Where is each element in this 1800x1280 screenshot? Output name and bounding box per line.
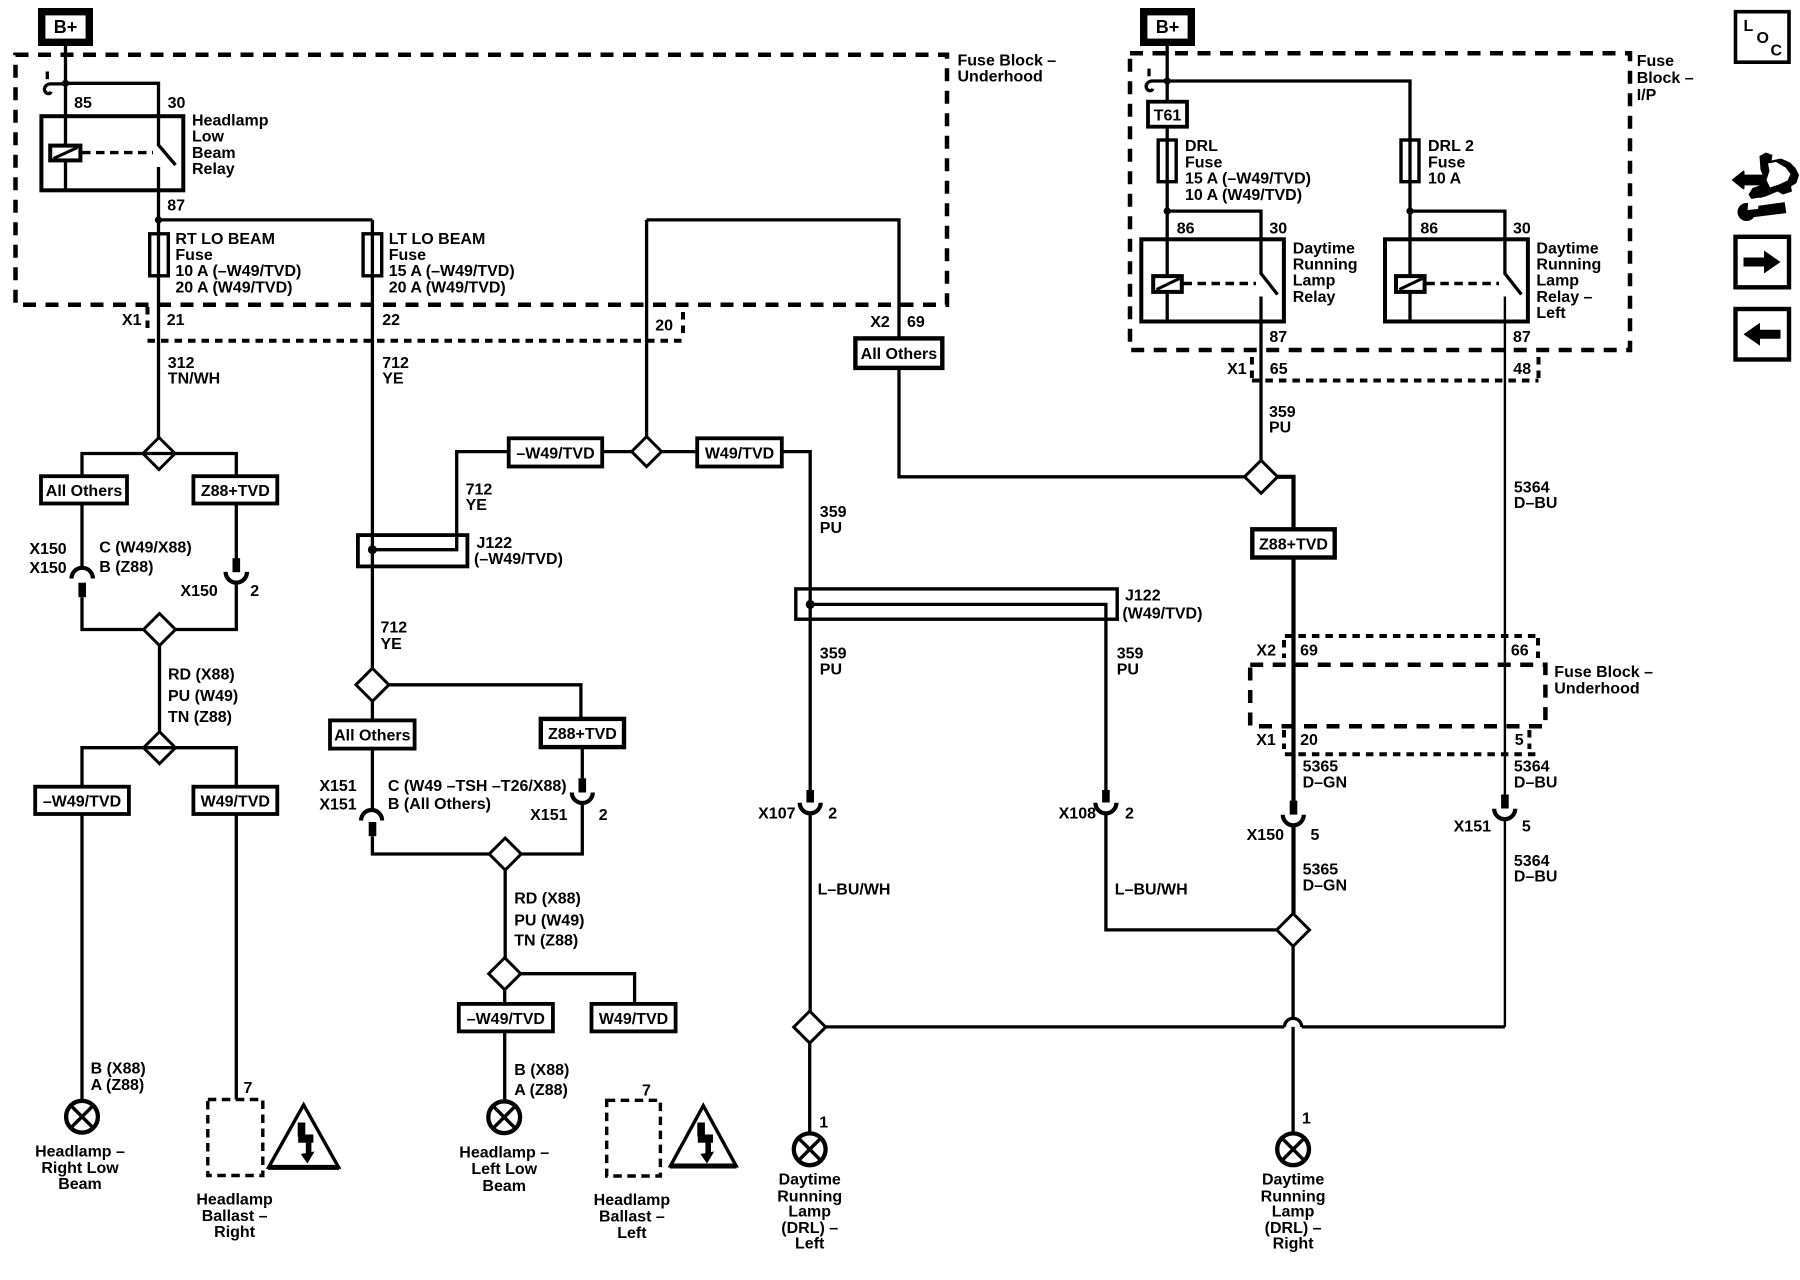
svg-text:W49/TVD: W49/TVD	[705, 446, 774, 463]
svg-text:D–BU: D–BU	[1514, 495, 1558, 512]
svg-text:Headlamp: Headlamp	[196, 1191, 273, 1208]
wire down to right ballast	[235, 814, 238, 1100]
wire diamond down to DRL right lamp (hops bus)	[1291, 946, 1294, 1133]
dashed box Fuse Block - Underhood (right)	[1250, 665, 1545, 726]
splice diamond middle third	[489, 958, 521, 990]
svg-text:69: 69	[907, 314, 925, 331]
svg-text:5: 5	[1515, 732, 1524, 749]
option box -W49/TVD (left)	[35, 787, 129, 814]
wire top run to X2-69	[647, 220, 899, 339]
warning triangle left ballast	[670, 1106, 737, 1166]
lamp Daytime Running Lamp DRL Left	[794, 1133, 826, 1165]
svg-text:5365: 5365	[1303, 758, 1339, 775]
svg-text:5364: 5364	[1514, 853, 1550, 870]
connector X150-5 (male above, female below)	[1283, 801, 1304, 826]
svg-text:Z88+TVD: Z88+TVD	[201, 483, 270, 500]
svg-text:C (W49 –TSH –T26/X88): C (W49 –TSH –T26/X88)	[388, 778, 567, 795]
svg-text:X2: X2	[870, 314, 890, 331]
connector X150 (female above, male below)	[72, 568, 93, 597]
svg-text:LT LO BEAM: LT LO BEAM	[389, 231, 486, 248]
svg-text:Daytime: Daytime	[1536, 240, 1598, 257]
svg-text:YE: YE	[466, 497, 488, 514]
option box Z88+TVD (right)	[1252, 529, 1334, 557]
svg-text:RD (X88): RD (X88)	[514, 891, 581, 908]
hook symbol (wire continues) right	[1146, 69, 1166, 91]
svg-text:PU (W49): PU (W49)	[168, 688, 238, 705]
svg-text:Fuse Block –: Fuse Block –	[958, 52, 1057, 69]
pin B/A labels (left lamp)	[91, 1061, 146, 1094]
wire 87 feed to both fuses	[159, 218, 373, 221]
wire W49/TVD right to X107 drop, circuit 359 PU	[782, 452, 810, 791]
svg-text:Running: Running	[1536, 257, 1601, 274]
wire B+ right down through T61 and DRL fuse to relay coil	[1166, 46, 1169, 276]
navigation arrow back (left)	[1736, 309, 1790, 360]
node junction DRL relay 2 86	[1406, 208, 1413, 215]
wire 85-30 top bracket	[66, 83, 159, 146]
svg-text:Beam: Beam	[482, 1178, 526, 1195]
svg-text:Headlamp: Headlamp	[192, 113, 269, 130]
junction block T61	[1148, 102, 1187, 127]
svg-text:TN (Z88): TN (Z88)	[168, 709, 232, 726]
dashed box Headlamp Ballast - Left	[607, 1100, 661, 1176]
relay label Headlamp Low Beam Relay	[192, 113, 269, 179]
connector X1 dotted separator (right)	[1252, 379, 1539, 383]
wire diamond right to Z88+TVD	[389, 685, 581, 719]
svg-text:Relay –: Relay –	[1536, 289, 1592, 306]
wire relay 2 87 down right side, circuit 5364 D-BU	[1504, 297, 1506, 795]
connector X2 dotted mark left	[1282, 640, 1286, 658]
svg-text:7: 7	[642, 1083, 651, 1100]
splice diamond DRL left	[794, 1011, 826, 1043]
svg-text:20 A (W49/TVD): 20 A (W49/TVD)	[175, 279, 292, 296]
wire label RD PU TN (middle)	[514, 891, 584, 950]
wire DRL bus across to right	[826, 1025, 1505, 1028]
fuse RT LO BEAM label	[175, 231, 301, 297]
wire right branch Z88+TVD	[159, 454, 236, 477]
fuse LT LO BEAM	[363, 234, 382, 276]
connector X1b dotted mark left	[1282, 730, 1286, 749]
relay 2 label	[1536, 240, 1601, 322]
label J122 (W49/TVD)	[1122, 588, 1202, 623]
svg-text:B (X88): B (X88)	[514, 1062, 569, 1079]
svg-text:Left: Left	[1536, 305, 1566, 322]
locator box LOC	[1736, 12, 1790, 63]
svg-text:Daytime: Daytime	[1262, 1172, 1324, 1189]
svg-text:All Others: All Others	[46, 483, 123, 500]
relay 2 coil	[1396, 276, 1425, 292]
svg-text:Relay: Relay	[1293, 289, 1336, 306]
svg-text:5: 5	[1311, 827, 1320, 844]
wire LT LO BEAM fuse drop, circuit 712	[371, 220, 374, 669]
svg-text:Z88+TVD: Z88+TVD	[1259, 537, 1328, 554]
svg-text:10 A (W49/TVD): 10 A (W49/TVD)	[1185, 187, 1302, 204]
svg-text:D–GN: D–GN	[1303, 774, 1347, 791]
svg-text:C: C	[1771, 43, 1783, 60]
wire relay 1 coil stub	[1166, 292, 1169, 321]
svg-text:Headlamp –: Headlamp –	[35, 1144, 125, 1161]
label Fuse Block - Underhood	[958, 52, 1057, 85]
svg-text:X150: X150	[180, 583, 217, 600]
svg-text:YE: YE	[382, 370, 404, 387]
svg-text:T61: T61	[1154, 108, 1182, 125]
svg-text:Fuse: Fuse	[175, 247, 212, 264]
svg-text:Block –: Block –	[1637, 70, 1694, 87]
wire right branch W49/TVD	[160, 748, 237, 787]
splice diamond middle second	[489, 838, 521, 870]
node junction B+ right	[1164, 77, 1171, 84]
wire down to right low beam lamp	[80, 814, 83, 1101]
svg-text:Right: Right	[214, 1224, 256, 1241]
wire X151-2 down to splice	[521, 803, 582, 854]
wire right branch W49/TVD (middle)	[521, 974, 635, 1004]
wire from Z88+TVD to connector X150 pin 2	[235, 504, 238, 559]
svg-text:10 A: 10 A	[1428, 171, 1462, 188]
wire splice down	[158, 646, 161, 733]
wire label 5364 D-BU (upper)	[1514, 479, 1558, 512]
svg-text:X150: X150	[29, 541, 66, 558]
fuse DRL 2 label	[1428, 138, 1474, 187]
svg-text:X151: X151	[319, 797, 356, 814]
svg-text:L: L	[1744, 18, 1754, 35]
wire diamond down to All Others box	[371, 701, 374, 720]
svg-text:B+: B+	[1156, 17, 1180, 37]
svg-text:Fuse: Fuse	[389, 247, 426, 264]
wire label 712 YE (below J122)	[381, 620, 408, 653]
svg-text:X150: X150	[1247, 827, 1284, 844]
wire label 359 PU (below J122 right)	[1117, 645, 1144, 678]
svg-text:(–W49/TVD): (–W49/TVD)	[474, 551, 563, 568]
connector X1 dotted separator line	[148, 339, 684, 343]
splice diamond left (312)	[143, 438, 175, 470]
svg-text:Left: Left	[795, 1235, 825, 1252]
option box W49/TVD (bottom middle)	[592, 1004, 676, 1032]
svg-text:22: 22	[382, 312, 400, 329]
relay box Headlamp Low Beam Relay	[41, 116, 183, 190]
svg-text:X151: X151	[319, 778, 356, 795]
svg-text:Right: Right	[1273, 1235, 1315, 1252]
option box All Others (top middle)	[855, 338, 942, 368]
wire X151-5 down to DRL bus, 5364 D-BU	[1504, 819, 1506, 1027]
wire left branch -W49/TVD	[82, 748, 160, 787]
label Daytime Running Lamp (DRL) - Left	[777, 1172, 842, 1253]
svg-text:W49/TVD: W49/TVD	[599, 1011, 668, 1028]
svg-text:Fuse Block –: Fuse Block –	[1554, 664, 1653, 681]
svg-text:Ballast –: Ballast –	[599, 1209, 665, 1226]
connector X150-5 labels	[1247, 827, 1320, 844]
svg-text:2: 2	[1125, 805, 1134, 822]
svg-text:X1: X1	[122, 312, 142, 329]
node junction B+/85	[62, 80, 69, 87]
option box Z88+TVD (left)	[193, 476, 277, 503]
label Headlamp Ballast - Left	[594, 1192, 671, 1242]
svg-text:L–BU/WH: L–BU/WH	[818, 882, 891, 899]
wire label 312 TN/WH	[168, 355, 220, 387]
svg-text:B (All Others): B (All Others)	[388, 796, 491, 813]
splice diamond 712	[356, 668, 389, 701]
fuse DRL 2	[1401, 140, 1419, 182]
relay 1 coil	[1153, 276, 1182, 292]
svg-text:All Others: All Others	[334, 728, 411, 745]
option box All Others (left)	[41, 476, 127, 503]
svg-text:Lamp: Lamp	[1272, 1203, 1315, 1220]
svg-text:X107: X107	[758, 805, 795, 822]
splice diamond 359	[1245, 460, 1278, 493]
svg-text:Underhood: Underhood	[958, 68, 1043, 85]
svg-text:A (Z88): A (Z88)	[514, 1082, 568, 1099]
svg-text:X150: X150	[29, 560, 66, 577]
wire X150-2 down to splice	[175, 583, 236, 630]
splice pack J122 (-W49/TVD)	[358, 535, 468, 566]
svg-text:RD (X88): RD (X88)	[168, 666, 235, 683]
relay actuation dashed line	[82, 151, 153, 154]
option box -W49/TVD (top middle)	[509, 438, 603, 466]
wire label 359 PU (below J122 left)	[820, 645, 847, 678]
svg-text:(W49/TVD): (W49/TVD)	[1122, 606, 1202, 623]
svg-text:DRL 2: DRL 2	[1428, 138, 1474, 155]
connector X2 dotted mark right	[1536, 638, 1540, 658]
wire diamond left to -W49/TVD box	[602, 450, 631, 453]
svg-text:2: 2	[828, 805, 837, 822]
wire hop (no connection) at DRL right drop	[1285, 1018, 1302, 1027]
wire diamond right to W49/TVD box	[662, 450, 698, 453]
svg-text:X2: X2	[1256, 643, 1276, 660]
svg-text:20: 20	[1300, 732, 1318, 749]
svg-text:85: 85	[74, 95, 92, 112]
svg-text:PU: PU	[820, 661, 842, 678]
wire left branch All Others	[82, 454, 159, 477]
svg-text:86: 86	[1420, 220, 1438, 237]
connector X150 labels left	[29, 541, 66, 577]
wire B+ across to DRL 2 fuse	[1167, 81, 1410, 276]
svg-text:20: 20	[655, 318, 673, 335]
svg-text:PU (W49): PU (W49)	[514, 913, 584, 930]
connector X107 labels	[758, 805, 837, 822]
wire B+ left down to coil pin 85	[64, 46, 67, 146]
wire 86-30 bracket relay 2	[1410, 211, 1505, 274]
svg-text:TN (Z88): TN (Z88)	[514, 933, 578, 950]
wire RT LO BEAM fuse drop, circuit 312	[157, 220, 160, 439]
battery feed B+ (right)	[1144, 12, 1192, 43]
svg-text:Beam: Beam	[58, 1176, 102, 1193]
svg-text:5: 5	[1522, 819, 1531, 836]
label Daytime Running Lamp (DRL) - Right	[1261, 1172, 1326, 1253]
svg-text:C (W49/X88): C (W49/X88)	[99, 540, 191, 557]
wire down to left low beam lamp	[503, 1031, 506, 1101]
connector X108 labels	[1059, 805, 1134, 822]
svg-text:Daytime: Daytime	[779, 1172, 841, 1189]
svg-text:10 A (–W49/TVD): 10 A (–W49/TVD)	[175, 263, 301, 280]
wire branch from top feed to W49/TVD splice network	[645, 220, 648, 437]
wire coil bottom stub	[64, 162, 67, 190]
connector X151 labels left	[319, 778, 356, 814]
option box W49/TVD (top middle)	[697, 438, 782, 466]
wire splice jog down to Z88+TVD	[1276, 477, 1294, 530]
fuse DRL	[1158, 140, 1176, 182]
svg-text:TN/WH: TN/WH	[168, 370, 220, 387]
svg-text:D–BU: D–BU	[1514, 869, 1558, 886]
label Headlamp Ballast - Right	[196, 1191, 273, 1241]
svg-text:712: 712	[381, 620, 408, 637]
label Headlamp Left Low Beam	[459, 1144, 549, 1195]
wire X150-5 down to splice, 5365 D-GN	[1291, 825, 1295, 913]
wire X107 down to DRL splice, L-BU/WH	[809, 813, 812, 1011]
relay coil	[50, 146, 80, 161]
svg-text:D–BU: D–BU	[1514, 774, 1558, 791]
svg-text:15 A (–W49/TVD): 15 A (–W49/TVD)	[389, 263, 515, 280]
hook symbol (wire continues) left	[44, 72, 64, 94]
svg-text:X151: X151	[1454, 819, 1491, 836]
connector X151 (female above, male below)	[361, 810, 382, 836]
fuse DRL label	[1185, 138, 1311, 204]
svg-text:5364: 5364	[1514, 479, 1550, 496]
svg-text:2: 2	[250, 583, 259, 600]
wire X151 down to splice	[372, 836, 489, 854]
service icon double arrow with wrench	[1733, 153, 1799, 222]
svg-text:L–BU/WH: L–BU/WH	[1115, 882, 1188, 899]
wire left branch -W49/TVD (middle)	[503, 990, 506, 1004]
connector X151-5 labels	[1454, 819, 1531, 836]
wire Z88+TVD down to X150, circuit 5365 D-GN	[1291, 558, 1295, 802]
svg-text:X151: X151	[530, 807, 567, 824]
lamp Headlamp Right Low Beam	[66, 1101, 98, 1133]
wire label 5364 D-BU (lower)	[1514, 853, 1558, 886]
relay 1 label	[1293, 240, 1358, 305]
svg-text:Left: Left	[617, 1225, 647, 1242]
svg-text:Lamp: Lamp	[788, 1203, 831, 1220]
svg-text:5365: 5365	[1303, 862, 1339, 879]
svg-text:87: 87	[1513, 329, 1531, 346]
wire label 5364 D-BU (middle)	[1514, 758, 1558, 791]
option box Z88+TVD (middle)	[541, 719, 624, 747]
splice diamond DRL right	[1277, 914, 1310, 947]
wire Z88+TVD to X151 pin 2	[581, 747, 584, 778]
relay box Daytime Running Lamp Relay	[1141, 239, 1284, 321]
svg-text:All Others: All Others	[861, 346, 938, 363]
wire label 712 YE (middle)	[466, 482, 493, 514]
connector X1 dotted mark left	[146, 307, 150, 331]
relay box Daytime Running Lamp Relay - Left	[1385, 239, 1528, 321]
svg-text:J122: J122	[1125, 588, 1161, 605]
svg-text:B (Z88): B (Z88)	[99, 559, 153, 576]
dashed box Fuse Block - I/P	[1130, 53, 1630, 350]
svg-text:PU: PU	[1269, 420, 1291, 437]
svg-text:PU: PU	[820, 520, 842, 537]
label Fuse Block - I/P	[1637, 53, 1694, 104]
wire label 5365 D-GN (upper)	[1303, 758, 1347, 791]
dashed box Headlamp Ballast - Right	[208, 1100, 263, 1176]
pin B/A labels (middle lamp)	[514, 1062, 569, 1099]
svg-text:–W49/TVD: –W49/TVD	[43, 794, 121, 811]
wire X150 down to splice	[82, 597, 144, 629]
splice pack J122 (W49/TVD)	[796, 589, 1117, 791]
svg-text:Relay: Relay	[192, 161, 235, 178]
svg-text:Running: Running	[1293, 257, 1358, 274]
connector X1b dotted separator	[1285, 752, 1538, 756]
wire -W49/TVD to J122 splice pack, circuit 712 YE	[457, 452, 509, 538]
node junction DRL relay 86	[1164, 208, 1171, 215]
svg-text:Fuse: Fuse	[1428, 154, 1465, 171]
fuse RT LO BEAM	[150, 234, 169, 276]
connector X151-5 (male above, female below)	[1494, 795, 1515, 820]
svg-text:86: 86	[1177, 220, 1195, 237]
svg-text:66: 66	[1511, 643, 1529, 660]
svg-text:Fuse: Fuse	[1185, 154, 1222, 171]
lamp Headlamp Left Low Beam	[488, 1101, 520, 1133]
svg-text:Fuse: Fuse	[1637, 53, 1674, 70]
option box All Others (middle)	[330, 720, 415, 748]
svg-text:Daytime: Daytime	[1293, 240, 1355, 257]
relay 2 switch arm	[1505, 274, 1522, 295]
pin C/B labels (middle)	[388, 778, 567, 813]
svg-text:I/P: I/P	[1637, 87, 1657, 104]
svg-text:Low: Low	[192, 129, 225, 146]
svg-text:1: 1	[819, 1114, 828, 1131]
svg-text:87: 87	[167, 198, 185, 215]
connector X150 pin 2 (male above, female below)	[226, 558, 247, 582]
svg-text:30: 30	[168, 95, 186, 112]
relay 1 actuation dashed line	[1184, 282, 1257, 285]
splice diamond left second	[144, 614, 176, 646]
connector X151 pin 2 (male above, female below)	[572, 778, 593, 803]
svg-text:5364: 5364	[1514, 758, 1550, 775]
svg-text:87: 87	[1269, 329, 1287, 346]
svg-text:A (Z88): A (Z88)	[91, 1077, 145, 1094]
svg-text:PU: PU	[1117, 661, 1139, 678]
wire relay 87 down	[157, 167, 160, 220]
svg-text:Left Low: Left Low	[471, 1161, 537, 1178]
dashed box Fuse Block - Underhood	[16, 55, 948, 305]
svg-text:Lamp: Lamp	[1536, 273, 1579, 290]
svg-text:B (X88): B (X88)	[91, 1061, 146, 1078]
svg-text:359: 359	[820, 645, 847, 662]
connector X1 dotted mark right	[681, 312, 685, 336]
svg-text:20 A (W49/TVD): 20 A (W49/TVD)	[389, 279, 506, 296]
svg-text:DRL: DRL	[1185, 138, 1218, 155]
svg-text:Underhood: Underhood	[1554, 680, 1639, 697]
connector X1 dotted mark (right b)	[1537, 357, 1541, 381]
wire All Others down and across to splice	[899, 368, 1245, 477]
svg-text:1: 1	[1302, 1111, 1311, 1128]
splice diamond left third	[144, 732, 176, 764]
svg-text:21: 21	[167, 312, 185, 329]
option box -W49/TVD (bottom middle)	[459, 1004, 553, 1032]
node junction J122 bus	[368, 545, 377, 554]
svg-text:7: 7	[244, 1080, 253, 1097]
svg-text:15 A (–W49/TVD): 15 A (–W49/TVD)	[1185, 171, 1311, 188]
svg-text:48: 48	[1513, 361, 1531, 378]
svg-text:X1: X1	[1256, 732, 1276, 749]
svg-text:Z88+TVD: Z88+TVD	[548, 726, 617, 743]
node junction J122 bus (middle)	[806, 600, 815, 609]
svg-text:–W49/TVD: –W49/TVD	[467, 1011, 545, 1028]
svg-text:D–GN: D–GN	[1303, 878, 1347, 895]
svg-text:359: 359	[1269, 404, 1296, 421]
wire X108 down and across, L-BU/WH	[1106, 813, 1277, 930]
svg-text:YE: YE	[381, 636, 403, 653]
svg-text:X108: X108	[1059, 805, 1096, 822]
svg-text:359: 359	[1117, 645, 1144, 662]
label Headlamp Right Low Beam	[35, 1144, 125, 1193]
wire 86-30 bracket relay 1	[1167, 211, 1261, 274]
navigation arrow next (right)	[1736, 237, 1790, 287]
connector X150 pin 2 labels	[180, 583, 259, 600]
svg-text:B+: B+	[54, 17, 78, 37]
svg-text:RT LO BEAM: RT LO BEAM	[175, 231, 275, 248]
svg-text:Headlamp: Headlamp	[594, 1192, 671, 1209]
wire splice down	[504, 870, 507, 958]
wire label RD PU TN (left)	[168, 666, 238, 726]
svg-text:X1: X1	[1227, 361, 1247, 378]
